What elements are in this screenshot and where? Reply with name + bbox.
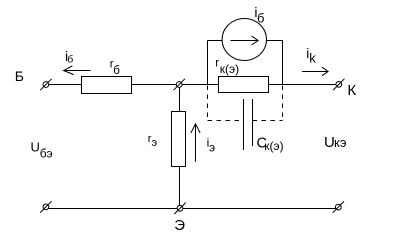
svg-text:к(э): к(э) [220, 62, 239, 76]
arrow i_э (emitter current, pointing up) [191, 124, 200, 162]
wire emitter vertical branch [179, 85, 181, 207]
node К terminal [333, 79, 344, 90]
svg-text:б: б [257, 11, 264, 26]
current source U1 arrow [231, 36, 259, 45]
capacitor C_к(э) plates [244, 99, 253, 150]
node middle junction [174, 79, 185, 90]
svg-text:Э: Э [174, 217, 185, 234]
resistor r_э [172, 112, 186, 167]
current source U1 circle [222, 19, 266, 61]
node Б terminal [40, 79, 51, 90]
wire current source left connector [208, 41, 223, 85]
svg-text:кэ: кэ [334, 135, 347, 150]
svg-text:k: k [309, 51, 316, 66]
dashed box around r_к(э) and C_к(э) [208, 86, 283, 122]
svg-text:U: U [31, 139, 40, 154]
svg-text:к(э): к(э) [264, 139, 283, 153]
resistor r_к(э) [219, 77, 269, 93]
svg-text:К: К [347, 82, 356, 99]
svg-text:Б: Б [15, 68, 24, 84]
resistor r_б [82, 77, 132, 94]
svg-text:б: б [113, 65, 120, 77]
svg-text:б: б [67, 54, 73, 66]
wire top base-collector rail [49, 84, 336, 86]
svg-text:э: э [209, 141, 215, 155]
wire bottom emitter rail [49, 208, 337, 210]
svg-text:r: r [215, 58, 219, 70]
arrow i_к (collector current, pointing right) [302, 67, 328, 76]
svg-text:бэ: бэ [40, 146, 53, 160]
node bottom right [333, 201, 344, 212]
node bottom left [40, 201, 51, 212]
svg-text:э: э [152, 137, 158, 149]
node Э junction [174, 203, 185, 214]
arrow i_б (base current, pointing left) [64, 66, 91, 75]
wire current source right connector [267, 41, 283, 85]
